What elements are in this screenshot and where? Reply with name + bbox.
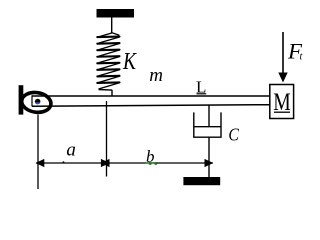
top anchor (fixed wall) bbox=[97, 9, 135, 18]
wire spring-to-beam stub bbox=[111, 90, 113, 97]
mass block M box bbox=[270, 85, 294, 119]
pivot bearing D-ellipse bbox=[20, 91, 52, 115]
damper C cylinder cup bbox=[194, 112, 221, 137]
damper C piston plate bbox=[194, 126, 221, 128]
wire anchor-to-spring stub bbox=[111, 18, 113, 34]
dimension line a bbox=[36, 159, 111, 167]
force arrow Ft bbox=[278, 32, 287, 83]
svg-text:C: C bbox=[228, 125, 239, 145]
spring K coil bbox=[97, 33, 119, 91]
dimension extension line left (pivot) bbox=[37, 115, 39, 190]
label L (underlined) bbox=[196, 78, 206, 97]
svg-text:t: t bbox=[300, 52, 303, 63]
svg-text:K: K bbox=[122, 49, 137, 75]
ground block bbox=[183, 177, 220, 185]
svg-text:m: m bbox=[149, 65, 163, 86]
svg-text:a: a bbox=[66, 140, 76, 161]
pivot support wall bar bbox=[19, 85, 24, 114]
damper C piston rod bbox=[208, 105, 210, 127]
spellcheck squiggle under b bbox=[146, 163, 157, 165]
beam (lever bar m) bbox=[32, 95, 270, 106]
stray dot on dimension line bbox=[63, 161, 65, 163]
wire damper-to-ground rod bbox=[208, 137, 210, 177]
dimension extension line middle (spring point) bbox=[106, 101, 108, 177]
dimension line b bbox=[101, 159, 214, 167]
label Ft bbox=[287, 39, 303, 64]
pivot pin dot bbox=[35, 99, 41, 105]
label M (underlined) bbox=[273, 87, 291, 116]
